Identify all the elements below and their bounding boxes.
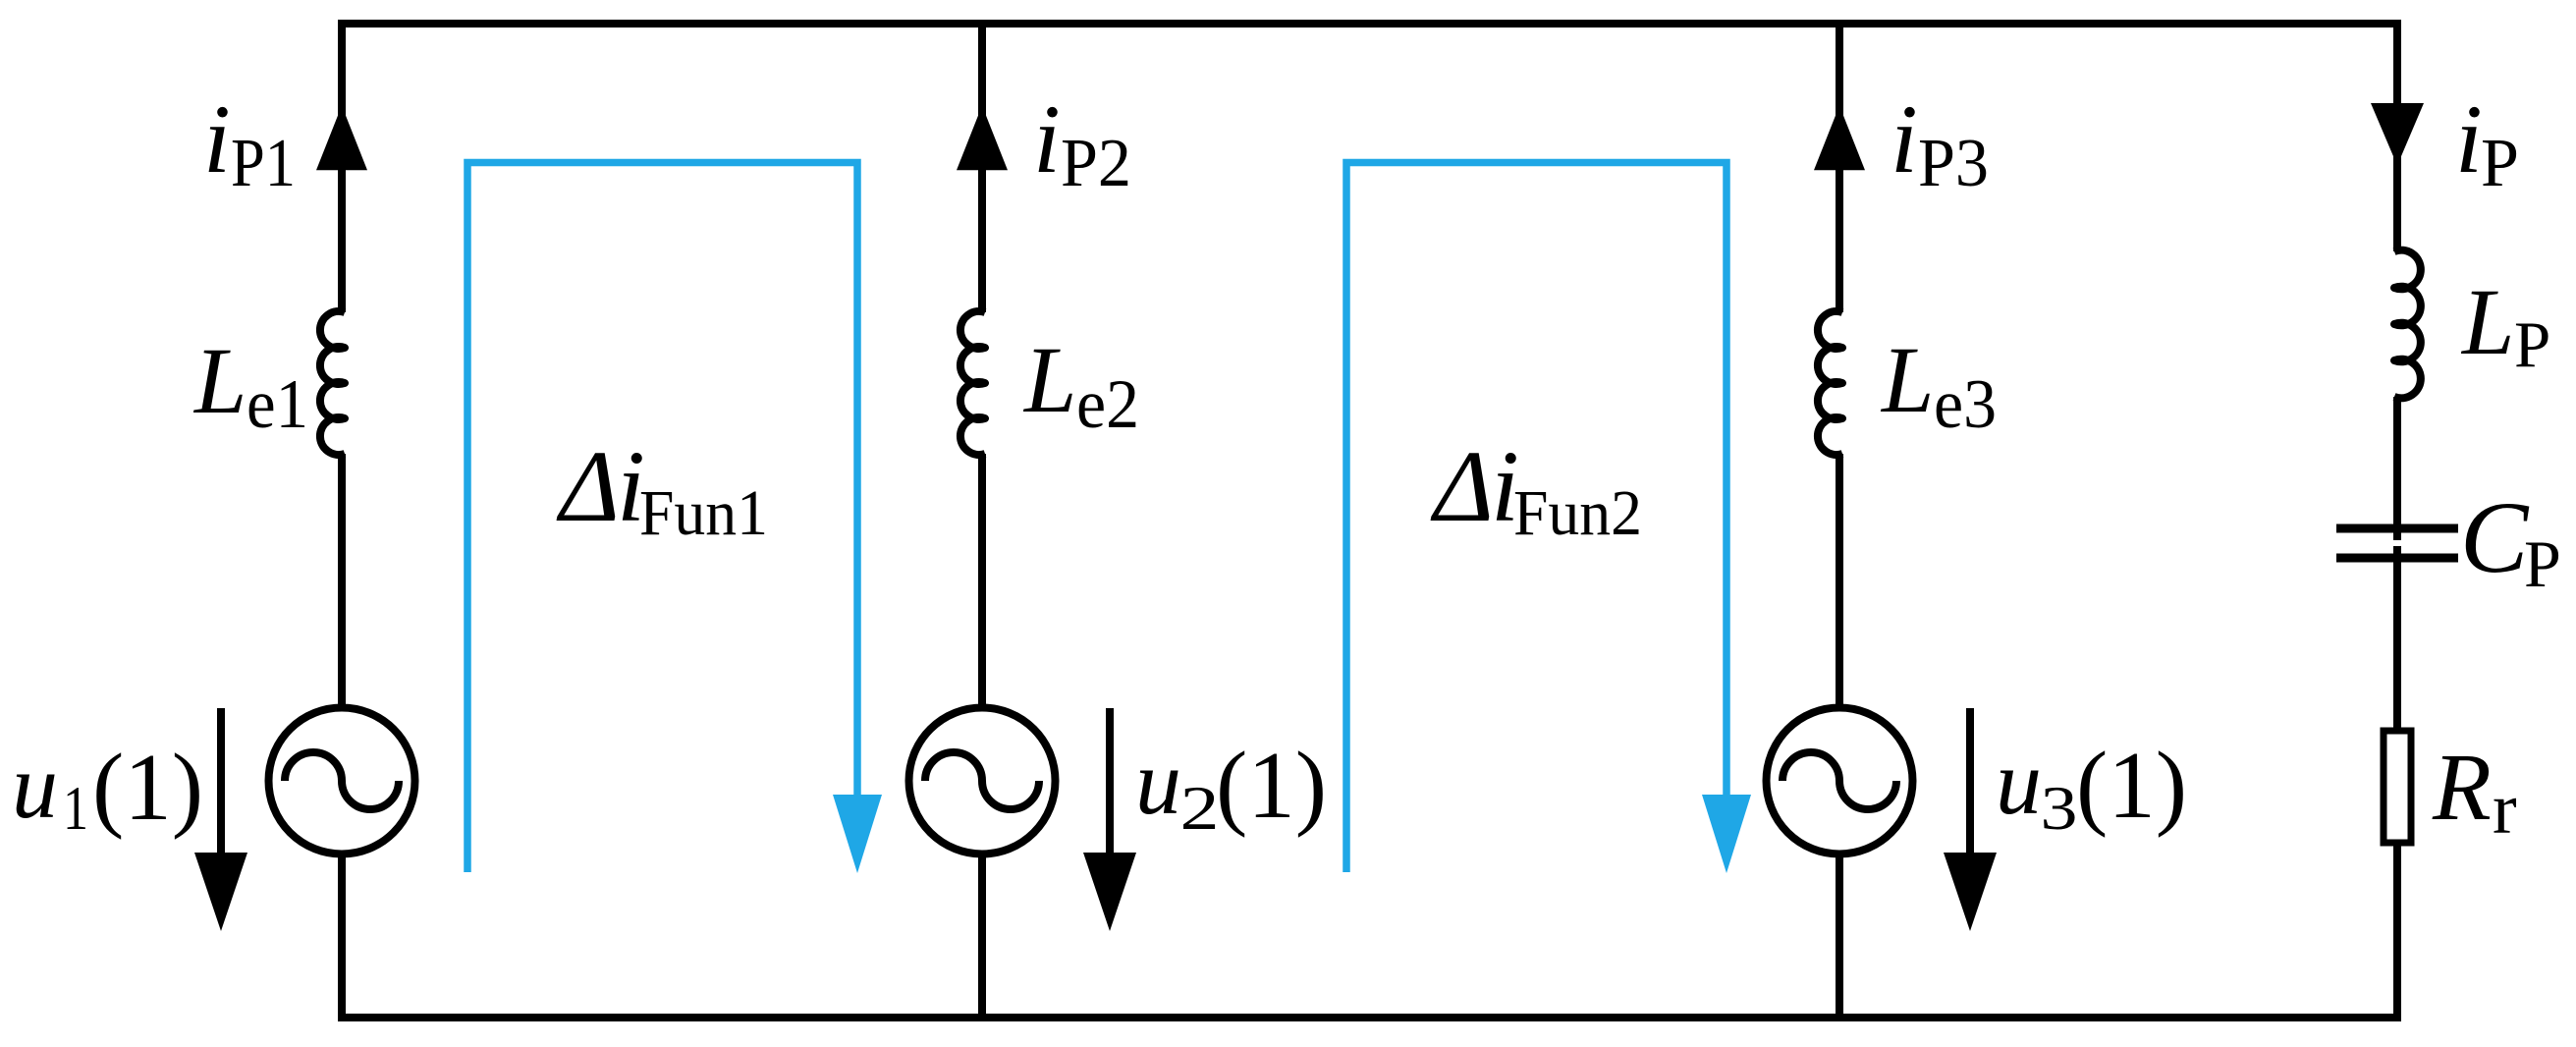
svg-text:P1: P1	[231, 126, 296, 201]
svg-text:Fun1: Fun1	[639, 477, 768, 549]
wire branch4 lower-mid segment	[2393, 558, 2401, 728]
resistor Rr	[2384, 731, 2411, 843]
wire bottom bus	[338, 1014, 2401, 1021]
svg-text:i: i	[1033, 84, 1061, 193]
wire branch4 bottom segment	[2393, 845, 2401, 1021]
svg-text:P2: P2	[1061, 126, 1131, 201]
inductor Le2	[960, 311, 985, 455]
voltage arrow u1	[217, 708, 225, 856]
svg-text:C: C	[2460, 481, 2530, 594]
voltage arrow u2	[1106, 708, 1114, 856]
svg-text:L: L	[1022, 327, 1076, 432]
wire branch2 mid segment	[978, 454, 986, 706]
svg-text:P: P	[2524, 526, 2561, 601]
svg-text:L: L	[2460, 269, 2514, 374]
svg-text:e2: e2	[1076, 366, 1139, 443]
svg-text:Δ: Δ	[556, 430, 620, 543]
svg-text:i: i	[2455, 84, 2483, 193]
svg-text:L: L	[192, 328, 247, 433]
wire branch1 top segment	[338, 20, 346, 312]
svg-text:P3: P3	[1918, 126, 1989, 201]
wire top bus	[338, 20, 2401, 28]
loop current path dIFun1	[467, 163, 857, 873]
current arrow iP2	[957, 106, 1008, 171]
wire branch2 bottom segment	[978, 855, 986, 1021]
wire branch1 mid segment	[338, 454, 346, 706]
current arrow iP	[2371, 103, 2424, 166]
svg-text:Fun2: Fun2	[1513, 477, 1642, 549]
svg-text:(1): (1)	[92, 735, 203, 840]
svg-text:P: P	[2514, 308, 2550, 381]
svg-text:3: 3	[2041, 773, 2078, 843]
svg-text:e3: e3	[1934, 366, 1997, 443]
svg-text:e1: e1	[247, 366, 308, 443]
wire branch3 bottom segment	[1836, 855, 1843, 1021]
current arrow iP1	[316, 106, 367, 171]
loop arrow dIFun1	[833, 795, 882, 873]
voltage arrow u3	[1966, 708, 1974, 856]
inductor LP	[2394, 250, 2421, 399]
svg-text:(1): (1)	[2076, 733, 2187, 838]
svg-text:Δ: Δ	[1430, 430, 1494, 543]
svg-text:R: R	[2432, 735, 2492, 841]
current arrow iP3	[1814, 106, 1865, 171]
svg-text:P: P	[2481, 126, 2519, 201]
AC source u1	[269, 708, 415, 854]
svg-text:1: 1	[63, 773, 88, 843]
inductor Le3	[1818, 311, 1842, 455]
wire branch4 upper-mid segment	[2393, 397, 2401, 540]
svg-text:r: r	[2493, 769, 2517, 850]
svg-text:(1): (1)	[1216, 733, 1327, 838]
wire branch2 top segment	[978, 20, 986, 312]
AC source u3	[1767, 708, 1913, 854]
capacitor CP	[2336, 524, 2458, 533]
AC source u2	[909, 708, 1056, 854]
inductor Le1	[320, 311, 345, 455]
loop arrow dIFun2	[1702, 795, 1751, 873]
loop current path dIFun2	[1346, 163, 1726, 873]
svg-text:u: u	[12, 736, 58, 838]
wire branch3 top segment	[1836, 20, 1843, 312]
svg-text:i: i	[1891, 84, 1918, 193]
wire branch4 capacitor stub	[2393, 546, 2401, 558]
wire branch1 bottom segment	[338, 855, 346, 1021]
svg-text:i: i	[203, 84, 231, 193]
wire branch4 top segment	[2393, 20, 2401, 251]
svg-text:u: u	[1135, 732, 1181, 834]
wire branch3 mid segment	[1836, 454, 1843, 706]
svg-text:L: L	[1880, 327, 1934, 432]
svg-text:u: u	[1996, 732, 2042, 834]
svg-text:2: 2	[1180, 773, 1220, 843]
